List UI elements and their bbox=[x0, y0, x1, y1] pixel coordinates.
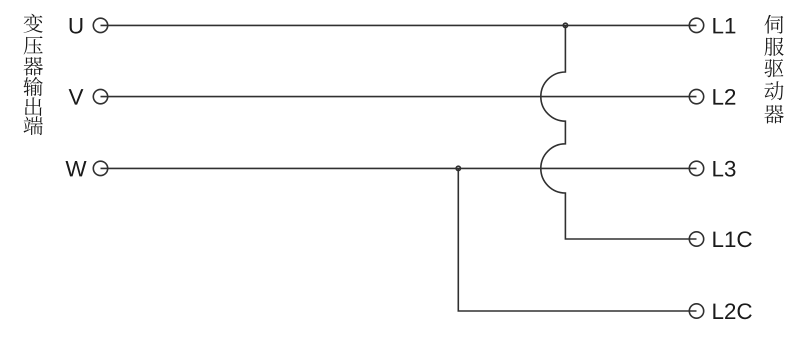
wire U to L1 bbox=[101, 24, 697, 26]
terminal circle W bbox=[93, 161, 107, 175]
label V bbox=[69, 89, 84, 104]
label L3 bbox=[713, 161, 735, 177]
terminal circle L1C bbox=[689, 232, 703, 246]
terminal circle L2 bbox=[689, 89, 703, 103]
wire W to L3 bbox=[101, 167, 697, 169]
label: 变压器输出端 (transformer output side) bbox=[23, 14, 43, 135]
label U bbox=[70, 18, 83, 34]
terminal circle L2C bbox=[689, 304, 703, 318]
label W bbox=[66, 161, 87, 176]
terminal circle U bbox=[93, 18, 107, 32]
wire from W-line junction to L2C bbox=[458, 168, 696, 311]
label: 伺服驱动器 (servo drive) bbox=[764, 15, 784, 124]
label L2C bbox=[713, 303, 751, 319]
wire V to L2 bbox=[101, 96, 697, 98]
junction on U line at vertical wire to L1C bbox=[563, 23, 567, 27]
terminal circle L3 bbox=[689, 161, 703, 175]
label L1C bbox=[713, 231, 751, 247]
junction on W line at vertical wire to L2C bbox=[456, 166, 460, 170]
terminal circle L1 bbox=[689, 18, 703, 32]
label L2 bbox=[713, 89, 735, 105]
label L1 bbox=[713, 18, 735, 33]
terminal circle V bbox=[93, 89, 107, 103]
wire from U-line junction to L1C (crossover hops over V and W lines) bbox=[541, 25, 697, 239]
